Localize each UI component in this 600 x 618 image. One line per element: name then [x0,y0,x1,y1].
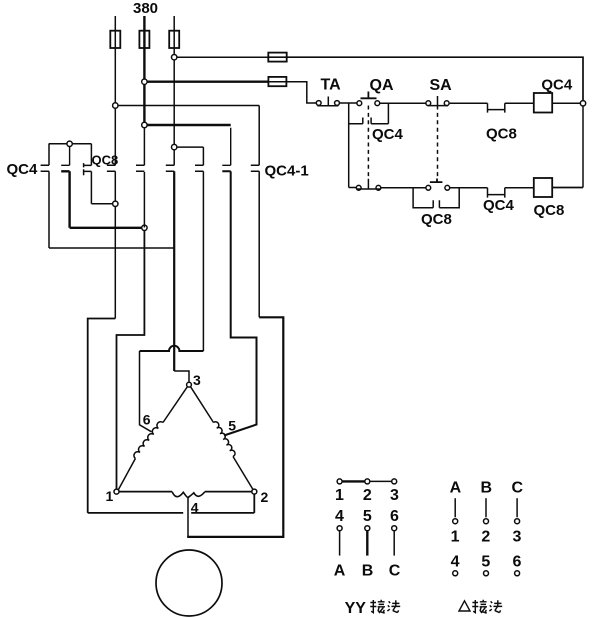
wire QA lower to SA lower [381,187,426,189]
svg-text:6: 6 [513,554,522,571]
motor body M [156,550,222,616]
wire QC4 shorting bar [49,143,92,145]
node delta 2 [484,519,489,524]
svg-text:1: 1 [335,487,344,504]
node phase C control tap [172,55,177,60]
coil QC8 [534,178,552,197]
svg-text:1: 1 [451,528,460,545]
node YY 4 [337,526,342,531]
node YY 1 [337,479,342,484]
node terminal 2 [252,489,257,494]
node terminal 3 [187,382,192,387]
contact QC8 interlock NC [488,103,505,112]
wire phase C to QC4-1 col1 [177,146,204,148]
node YY 5 [365,526,370,531]
wire phase C middle [173,48,175,165]
contact QC4-1 phase A [107,165,115,171]
svg-text:3: 3 [513,528,522,545]
svg-text:QC8: QC8 [534,202,565,219]
svg-text:QC8: QC8 [421,211,452,228]
fuse control circuit lower FU [268,77,286,86]
node YY 3 [392,479,397,484]
winding side 3-5 right [191,387,214,423]
svg-text:2: 2 [481,528,490,545]
svg-text:QC4: QC4 [372,126,404,143]
wire SA linkage dashed [437,106,439,179]
contact QC4 aux self-hold branch [349,103,389,124]
glyph jie [472,600,487,614]
node phase B control tap [142,79,147,84]
node YY 2 [365,479,370,484]
label delta caption symbol [459,601,470,611]
svg-text:B: B [362,562,374,579]
svg-text:QC4: QC4 [7,161,39,178]
contact QC4-1 col3 [251,106,259,318]
node QC4 bar junction [67,141,72,146]
svg-text:C: C [389,562,401,579]
motor winding triangle [106,372,269,537]
wire QC4 pole1 to phase C [49,247,174,249]
node QC8 phase A junction [113,201,118,206]
contact QC4 pole2 [61,147,69,166]
delta connection diagram [450,479,524,611]
svg-text:5: 5 [363,508,372,525]
svg-text:QC4: QC4 [483,197,515,214]
wire YY lead A [339,531,341,556]
fuse control circuit upper FU [268,53,286,62]
glyph jie [370,600,385,614]
wire right rail lower [582,106,584,188]
node YY 6 [392,526,397,531]
svg-text:QC8: QC8 [486,126,517,143]
contact QC8 aux self-hold branch [413,188,459,208]
wire control top rail [268,57,583,103]
svg-text:4: 4 [451,554,460,571]
contact QC8 shorting pole [84,144,92,204]
fuse phase C [169,31,179,48]
wire phase B middle [143,48,145,125]
fuse phase A [110,31,120,48]
wire SA lower to QC4 interlock [450,187,488,189]
wire phase A lower [114,171,116,318]
contact QC4-1 col1 [195,147,203,351]
glyph fa [387,600,400,612]
svg-text:2: 2 [363,487,372,504]
wire YY short bar [342,480,365,482]
svg-text:B: B [481,479,493,496]
contact QA stop button [357,101,362,106]
wire col3 outer right to tap4 [187,317,283,537]
wire YY lead B [366,531,368,556]
svg-text:QC4-1: QC4-1 [265,163,309,180]
wire phase A to QC4-1 col3 [118,105,259,107]
wire phase C lower [173,171,175,371]
svg-text:A: A [334,562,346,579]
svg-text:YY: YY [345,600,367,617]
contact QC4-1 phase B [136,165,144,171]
svg-text:5: 5 [228,418,236,434]
svg-text:4: 4 [335,508,344,525]
svg-text:QC4: QC4 [541,77,573,94]
svg-text:C: C [512,479,524,496]
winding side 6-1 left [163,387,187,423]
svg-text:6: 6 [390,508,399,525]
node delta 3 [515,519,520,524]
wire phase B to QC4-1 col2 [147,124,231,126]
contact QC4-1 col2 [222,128,230,166]
svg-text:TA: TA [321,77,342,94]
contact QC4 pole1 [41,144,49,248]
wire lower control row left [349,187,357,189]
wire terminal2 feed from phase A [88,494,255,513]
wire phase C top [173,16,175,48]
node right rail [580,101,585,106]
wire QC4 coil to rail [553,102,584,104]
wire feed down to lower control row [348,103,350,188]
svg-text:6: 6 [143,412,151,428]
wire phase B lower [143,128,145,166]
wire YY lead C [393,531,395,556]
contact QA lower [356,185,361,190]
YY connection diagram [334,479,401,617]
wire SA to QC8 interlock [450,102,488,104]
wire col1 to tap6 with hop [140,346,204,351]
node phase B col2 tap [142,122,147,127]
node pole2 phase B junction [142,225,147,230]
wire phase A middle [114,48,116,165]
wire QC8 pole to phase A [91,203,112,205]
node delta 6 [515,571,520,576]
wire QA to SA [380,102,426,104]
svg-text:SA: SA [430,77,453,94]
wire phase C to control fuse [177,56,268,58]
wire QC8 coil to rail [553,187,584,189]
wire QC4 pole2 to phase B [70,227,142,229]
contact SA upper [426,101,431,106]
node phase A control tap [113,103,118,108]
glyph fa [489,600,502,612]
svg-text:QA: QA [370,77,394,94]
wire tap 4 down [187,498,189,537]
contact SA lower [426,185,431,190]
wire delta lead B [485,498,487,517]
wire phase B to control fuse [147,80,268,82]
svg-text:1: 1 [106,488,114,504]
svg-text:3: 3 [193,372,201,388]
wire delta lead A [454,498,456,517]
node terminal 1 [114,489,119,494]
node delta 4 [453,571,458,576]
wire phase A top [114,16,116,48]
svg-text:2: 2 [261,489,269,505]
svg-text:5: 5 [481,554,490,571]
wire delta lead C [516,498,518,517]
wire to QC4 coil [505,102,534,104]
contact TA [316,101,321,106]
label jiefa YY (hand-drawn CJK) [370,600,400,614]
node phase C col1 tap [172,144,177,149]
winding side 1-2 bottom [119,491,172,493]
wire phase B lower2 [143,172,145,228]
contact QC4-1 phase C [166,165,174,171]
contact QC4 interlock NC [488,188,505,198]
svg-text:A: A [450,479,462,496]
coil QC4 [534,93,552,113]
node delta 1 [453,519,458,524]
wire control feed to TA [268,82,316,103]
svg-text:3: 3 [390,487,399,504]
wire to QC8 coil [505,187,534,189]
wire phase B top [143,16,145,48]
node delta 5 [484,571,489,576]
label jiefa delta (hand-drawn CJK) [472,600,502,614]
wire QA linkage dashed [367,106,369,179]
wire TA to QA [339,102,357,104]
fuse phase B [139,31,149,48]
svg-text:380: 380 [133,0,158,17]
